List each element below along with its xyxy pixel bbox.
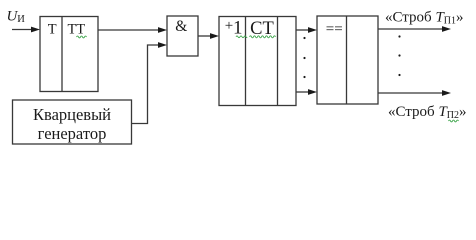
svg-text:генератор: генератор (38, 124, 107, 143)
svg-text:ТТ: ТТ (67, 22, 85, 38)
svg-text:+: + (225, 18, 233, 34)
svg-text:=: = (334, 21, 342, 37)
svg-text:&: & (175, 18, 187, 35)
svg-text:=: = (326, 21, 334, 37)
svg-text:И: И (17, 14, 25, 25)
svg-text:Т: Т (48, 22, 57, 38)
svg-text:1: 1 (233, 18, 243, 39)
svg-text:Кварцевый: Кварцевый (33, 105, 111, 124)
